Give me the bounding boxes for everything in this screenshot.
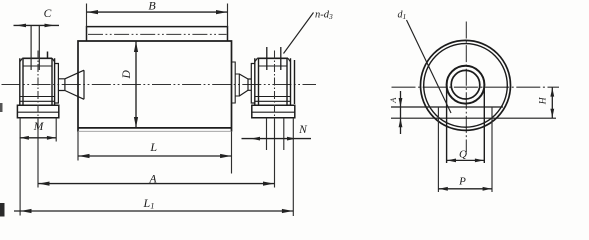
ext M right [55,118,57,142]
hub inner circle [451,70,480,99]
ext L1 left [19,118,21,216]
left bearing bolt lines [31,25,39,70]
base slab top [391,106,503,108]
dim L [78,155,232,157]
right bearing centerline [274,51,276,120]
pedestal sides [447,86,485,163]
drum shell band top [87,27,228,41]
svg-text:A: A [388,97,398,104]
svg-text:H: H [538,96,548,105]
base slab bottom [391,117,556,119]
dim H [551,87,553,118]
ext L right [231,132,233,174]
left hub cone [65,70,84,99]
right flange ring [232,62,236,103]
svg-text:D: D [121,69,133,79]
ext B right [227,4,229,27]
horizontal centerline [392,86,560,88]
dim D [135,42,137,128]
ext A right [274,119,276,188]
right bearing base [252,105,295,117]
svg-text:N: N [298,124,308,136]
left shaft [58,79,65,91]
dim C [14,24,60,26]
svg-text:d1: d1 [398,10,407,22]
dim A end view [400,91,402,134]
right shaft [248,79,251,90]
svg-text:L1: L1 [143,196,155,211]
outer rim circle [421,40,511,130]
dim Q [447,159,485,161]
svg-text:P: P [458,176,466,188]
left bearing block [20,58,55,105]
vertical centerline [465,22,467,153]
left bolt stub [47,52,49,59]
svg-text:A: A [148,173,157,185]
hub outer circle [447,66,485,104]
label d1 leader [407,20,452,113]
dim M [20,137,57,139]
ext L1 right [292,118,294,216]
right collar [251,64,254,104]
right bearing bolts [267,47,281,70]
left collar [55,64,59,104]
left bearing centerline [37,51,39,120]
right slot extension lines [267,118,284,150]
right cone [239,74,248,96]
scan smudge left edge [0,203,5,217]
ext A left [37,119,39,188]
right bearing block [255,58,295,105]
ext B left [86,4,88,27]
dim B [87,11,228,13]
dim L1 [14,210,293,212]
svg-text:B: B [148,0,156,13]
svg-text:n-d3: n-d3 [315,10,333,22]
label n-d3 leader [284,13,314,54]
svg-text:M: M [33,121,45,133]
slab side / P extensions [438,107,492,192]
right hub boss [235,74,239,96]
drum body rectangle [78,41,232,132]
svg-text:Q: Q [459,149,467,161]
drum bottom inner faint line [78,130,232,132]
dim A [38,183,275,185]
dim N [242,138,312,140]
band centerline [88,33,227,35]
svg-text:C: C [44,8,52,20]
svg-text:L: L [149,140,157,154]
axis centerline side view [2,84,317,86]
ext L left [77,132,79,161]
dimension extension lines [20,4,293,217]
left bearing base [17,105,58,117]
drum bottom edge [78,127,232,129]
inner rim circle [424,44,508,128]
dim P [438,188,492,190]
